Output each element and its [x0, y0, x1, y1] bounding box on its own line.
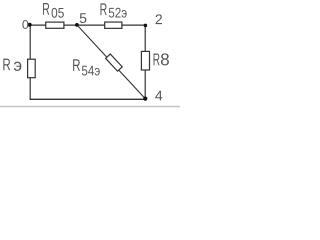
wire right: node 2 down to node 4 [144, 25, 146, 99]
resistor R8 [141, 51, 149, 70]
label R8 [154, 53, 169, 65]
label Rэ [3, 59, 21, 71]
resistor Rэ [28, 59, 36, 77]
wire top rail: node 0 to node 2 [30, 24, 145, 26]
node 4 junction dot [143, 97, 147, 101]
label R54э [73, 59, 100, 75]
label R05 [43, 3, 64, 18]
resistor R52э [105, 22, 122, 28]
node 0 junction dot [28, 23, 32, 27]
node 2 junction dot [144, 24, 148, 28]
wire diagonal: node 5 to node 4 [77, 25, 145, 99]
wire bottom rail [30, 98, 146, 100]
node 5 junction dot [75, 23, 79, 27]
resistor R05 [46, 22, 64, 28]
node label 0 [22, 20, 28, 29]
node label 5 [80, 13, 87, 23]
node label 4 [155, 91, 162, 101]
label R52э [100, 3, 126, 17]
wire left: node 0 down to bottom rail [29, 25, 31, 99]
resistor R54э (diagonal body) [106, 54, 123, 71]
decorative light rule at bottom [0, 106, 180, 108]
node label 2 [156, 14, 162, 24]
